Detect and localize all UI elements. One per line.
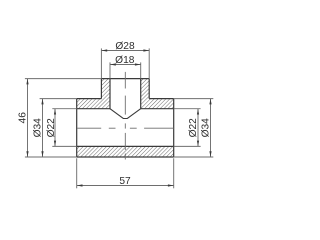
vertical centerline (branch axis) [124,72,126,89]
svg-text:Ø28: Ø28 [115,41,135,52]
dim line Ø22 left [54,109,56,147]
branch top edge [101,78,149,80]
branch outer left wall [100,79,102,99]
svg-text:Ø22: Ø22 [46,118,57,138]
dim line Ø18 [110,64,141,66]
tee fitting section: hatched walls [77,79,174,157]
ext line Ø18 right [140,62,142,78]
ext line Ø34 top [40,98,77,100]
ext line Ø28 left [100,48,102,78]
svg-text:Ø34: Ø34 [32,118,43,138]
bore bottom edge [77,145,174,147]
V transition branch-to-bore [110,109,141,119]
ext line 46 top (to branch top corner) [25,78,102,80]
ext line Ø22 top [52,108,76,110]
dim line Ø22 right [197,109,199,147]
bore top edge right [141,108,174,110]
ext line right Ø22 bottom [174,145,201,147]
body bottom edge [77,156,174,158]
dim line Ø28 [101,50,149,52]
dim line Ø34 right [210,99,212,157]
ext line Ø28 right [148,48,150,78]
dim line Ø34 left [42,99,44,157]
ext line 57 right [173,158,175,188]
svg-text:57: 57 [119,176,131,187]
dim line 46 [27,79,29,157]
body top edge right of branch [149,98,174,100]
hatch right branch wall + top-right band [141,79,174,109]
hatch bottom band [77,146,174,157]
ext line right Ø34 bottom [174,156,214,158]
branch inner left wall [109,79,111,109]
body left end [76,99,78,157]
svg-text:Ø34: Ø34 [201,118,212,138]
hatch left branch wall + top-left band [77,79,110,109]
body right end [173,99,175,157]
horizontal centerline (body axis) [77,127,101,129]
branch outer right wall [148,79,150,99]
svg-text:Ø18: Ø18 [115,55,135,66]
ext line right Ø34 top [174,98,214,100]
branch inner right wall [140,79,142,109]
svg-text:46: 46 [18,112,29,124]
dim line 57 [77,185,174,187]
ext line Ø22 bottom [52,145,76,147]
bore top edge left [77,108,110,110]
svg-text:Ø22: Ø22 [188,118,199,138]
ext line 57 left [76,158,78,188]
ext line right Ø22 top [174,108,201,110]
body top edge left of branch [77,98,102,100]
ext line Ø18 left [109,62,111,78]
ext line 46/Ø34 bottom [25,156,77,158]
